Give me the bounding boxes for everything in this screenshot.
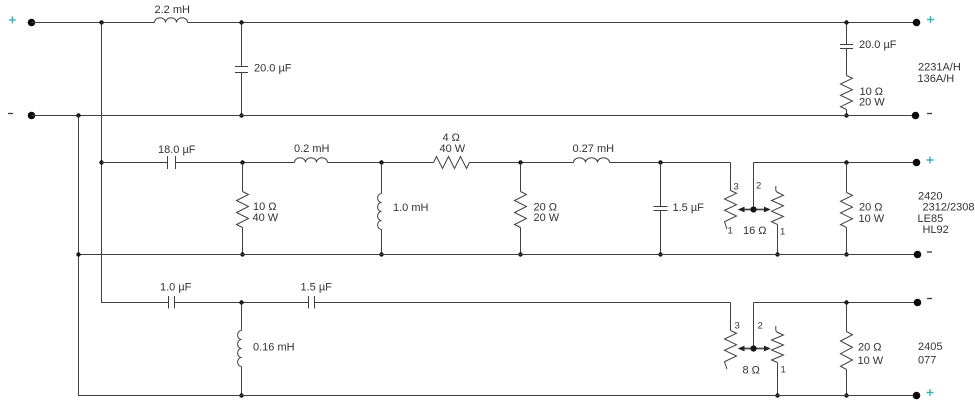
junction R4 bottom [518,252,522,256]
potentiometer VR1 wiper arrow [738,207,771,213]
svg-text:16 Ω: 16 Ω [743,225,767,237]
junction mid + start [99,160,103,164]
wire bot - [79,395,918,397]
junction R6 top [844,300,848,304]
potentiometer VR2 pin3 leg [725,303,737,370]
svg-text:2312/2308: 2312/2308 [923,202,975,214]
svg-text:1: 1 [780,227,785,238]
capacitor C5 1.0 uF [169,296,175,309]
svg-text:20 Ω: 20 Ω [859,202,883,214]
label - (tweeter out) [927,298,932,300]
svg-text:1.5 µF: 1.5 µF [301,282,333,294]
wire bot out [754,302,918,304]
junction C4 bottom [658,252,662,256]
svg-text:1.0 µF: 1.0 µF [160,282,192,294]
svg-text:0.16 mH: 0.16 mH [253,342,295,354]
junction VR2 wiper dot [750,345,756,351]
label - (input top) [8,113,13,115]
output terminal - (tweeter) [914,299,922,307]
wire top + left [32,22,155,24]
svg-text:0.2 mH: 0.2 mH [294,143,330,155]
wire bot 2 [175,302,309,304]
svg-text:077: 077 [918,355,936,367]
junction VR1 wiper dot [750,206,756,212]
svg-text:1: 1 [781,365,786,376]
potentiometer VR1 pin2 hook [776,186,779,193]
label + (woofer out) [927,16,934,23]
svg-text:20.0 µF: 20.0 µF [859,39,897,51]
label + (mid out) [927,157,934,164]
inductor L1 2.2 mH [155,18,188,23]
svg-text:2405: 2405 [918,341,942,353]
wire bus - vertical [79,116,155,396]
junction C4 top [658,160,662,164]
svg-text:40 W: 40 W [440,143,466,155]
wire bot 1 [102,302,169,304]
wire top + right [188,22,917,24]
label - (woofer out) [927,113,932,115]
resistor R4 20 ohm 20 W [515,163,527,255]
junction R5 top [844,160,848,164]
potentiometer VR1 lower half [772,193,784,255]
wire mid 4 [470,162,574,164]
potentiometer VR2 wiper line [753,303,755,349]
inductor L4 0.27 mH [574,158,610,163]
wire mid 5 [610,162,731,164]
input terminal - (top row) [28,112,36,120]
wire bot 3 [315,302,731,304]
wire mid - [79,254,918,256]
svg-text:2: 2 [756,181,761,192]
output terminal + (mid) [913,159,921,167]
svg-text:HL92: HL92 [923,224,949,236]
wire mid out + [754,162,917,164]
junction C1 top [239,20,243,24]
output terminal - (woofer) [912,112,920,120]
junction node B [76,113,80,117]
junction zobel top [844,20,848,24]
inductor L2 0.2 mH [295,158,328,163]
svg-text:136A/H: 136A/H [918,73,955,85]
potentiometer VR1 wiper line [753,163,755,210]
junction C1 bottom [239,113,243,117]
label - (mid out) [927,251,932,253]
inductor L5 0.16 mH [238,303,242,396]
svg-text:3: 3 [735,321,740,332]
label + (tweeter out) [927,389,934,396]
potentiometer VR2 pin2 hook [776,326,779,333]
svg-text:0.27 mH: 0.27 mH [573,143,615,155]
svg-text:1.0 mH: 1.0 mH [393,202,429,214]
junction R2 bottom [240,252,244,256]
potentiometer VR2 lower half [772,333,784,396]
inductor L3 1.0 mH [378,163,382,255]
junction VR1 bottom [775,252,779,256]
wire top - [32,115,916,117]
junction node A [99,20,103,24]
svg-text:2.2 mH: 2.2 mH [155,4,191,16]
resistor R3 4 ohm 40 W [434,157,470,169]
wire bus + vertical [102,23,155,303]
svg-text:8 Ω: 8 Ω [743,365,760,377]
potentiometer VR1 pin3 leg [725,163,737,230]
svg-text:10 W: 10 W [858,355,884,367]
capacitor C3 18.0 uF [168,156,176,169]
svg-text:20 W: 20 W [859,97,885,109]
resistor R5 20 ohm 10 W [841,163,853,255]
junction L5 bottom [239,393,243,397]
svg-text:1: 1 [728,226,733,237]
junction VR2 bottom [775,393,779,397]
junction L3 bottom [379,252,383,256]
junction R6 bottom [844,393,848,397]
svg-text:20.0 µF: 20.0 µF [254,63,292,75]
junction L5 top [239,300,243,304]
svg-text:2231A/H: 2231A/H [918,62,961,74]
junction zobel bottom [844,113,848,117]
potentiometer VR2 wiper arrow [738,346,771,352]
wire mid 2 [176,162,295,164]
output terminal - (mid) [914,251,922,259]
svg-text:20 Ω: 20 Ω [858,342,882,354]
svg-text:2: 2 [758,321,763,332]
junction R4 top [518,160,522,164]
svg-text:10 W: 10 W [859,213,885,225]
junction mid - start [76,252,80,256]
capacitor C4 1.5 uF [654,163,668,255]
label + (input top) [9,16,16,23]
svg-text:18.0 µF: 18.0 µF [158,144,196,156]
svg-text:40 W: 40 W [253,212,279,224]
svg-text:3: 3 [734,182,739,193]
junction R2 top [240,160,244,164]
junction L3 top [379,160,383,164]
capacitor C1 20.0 uF [235,23,248,116]
svg-text:20 W: 20 W [534,212,560,224]
wire mid 1 [102,162,168,164]
resistor R2 10 ohm 40 W [237,163,249,255]
resistor R1 10 ohm 20 W [841,76,853,116]
output terminal + (tweeter) [913,392,921,400]
output terminal + (woofer) [913,19,921,27]
input terminal + (top row) [28,19,36,27]
capacitor C6 1.5 uF [309,296,315,309]
resistor R6 20 ohm 10 W [841,303,853,396]
wire mid 3 [328,162,434,164]
junction R5 bottom [844,252,848,256]
svg-text:1.5 µF: 1.5 µF [673,202,705,214]
capacitor C2 20.0 uF [840,23,853,76]
